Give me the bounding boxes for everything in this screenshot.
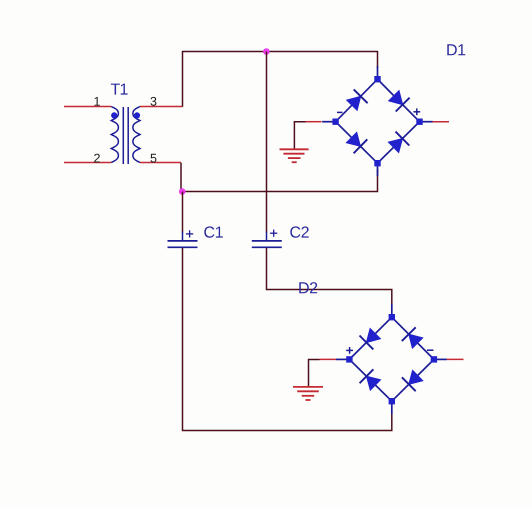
wire D1 left to ground [294, 122, 321, 149]
T1 pin 3 [140, 106, 182, 108]
D1 plus mark [413, 108, 420, 115]
wire junction B to C1 [182, 192, 184, 233]
D2 right node [431, 356, 437, 362]
capacitor C2 [252, 230, 282, 248]
C1 label [204, 226, 223, 237]
D1 bridge diamond edges [336, 79, 420, 163]
D1 right node [416, 119, 422, 125]
D2 label [299, 282, 317, 293]
D2 pin stubs [336, 304, 447, 414]
D1 top node [374, 76, 380, 82]
pin number 1 [95, 97, 100, 106]
D1 diode bottom-right [388, 132, 409, 153]
D1 diode bottom-left [346, 132, 367, 153]
ground for D1 [280, 149, 309, 162]
D1 pin stubs [322, 66, 432, 176]
ground for D2 [293, 387, 323, 400]
D2 plus mark [346, 347, 353, 354]
pin number 3 [151, 97, 157, 106]
pin number 2 [94, 154, 100, 163]
D2 output stub wire [447, 358, 464, 360]
wire junction A to C2 [266, 52, 268, 233]
wire D2 left to ground [309, 359, 336, 386]
wire pin5 to D1 bottom [181, 163, 378, 192]
wire C2 bottom to D2 top [267, 248, 392, 307]
D2 diode bottom-right [402, 370, 423, 391]
D2 bridge diamond edges [349, 317, 434, 401]
T1 label [111, 84, 128, 95]
D1 diode top-right [389, 91, 410, 112]
D1 diode top-left [347, 89, 368, 110]
wire C1 bottom to D2 bottom [183, 248, 392, 431]
D1 output stub wire [433, 121, 450, 123]
T1 pin 5 [140, 162, 181, 164]
D1 minus mark [337, 111, 343, 113]
D2 top node [389, 314, 395, 320]
T1 pin 2 [64, 162, 111, 164]
D2 minus mark [427, 349, 434, 351]
D1 bottom node [374, 160, 380, 166]
D2 left node [346, 356, 352, 362]
D2 bottom node [389, 398, 395, 404]
D2 diode top-right [402, 327, 423, 348]
wire pin3 to D1 top [183, 52, 378, 107]
pin number 5 [151, 154, 157, 163]
D2 diode bottom-left [360, 369, 381, 390]
D1 left node [332, 119, 338, 125]
D1 label [447, 44, 465, 55]
capacitor C1 [168, 230, 198, 247]
D2 diode top-left [360, 329, 381, 350]
C2 label [290, 226, 308, 237]
T1 pin 1 [64, 106, 111, 108]
junction node B [179, 188, 186, 195]
transformer T1 [111, 107, 140, 165]
junction node A [263, 48, 270, 55]
